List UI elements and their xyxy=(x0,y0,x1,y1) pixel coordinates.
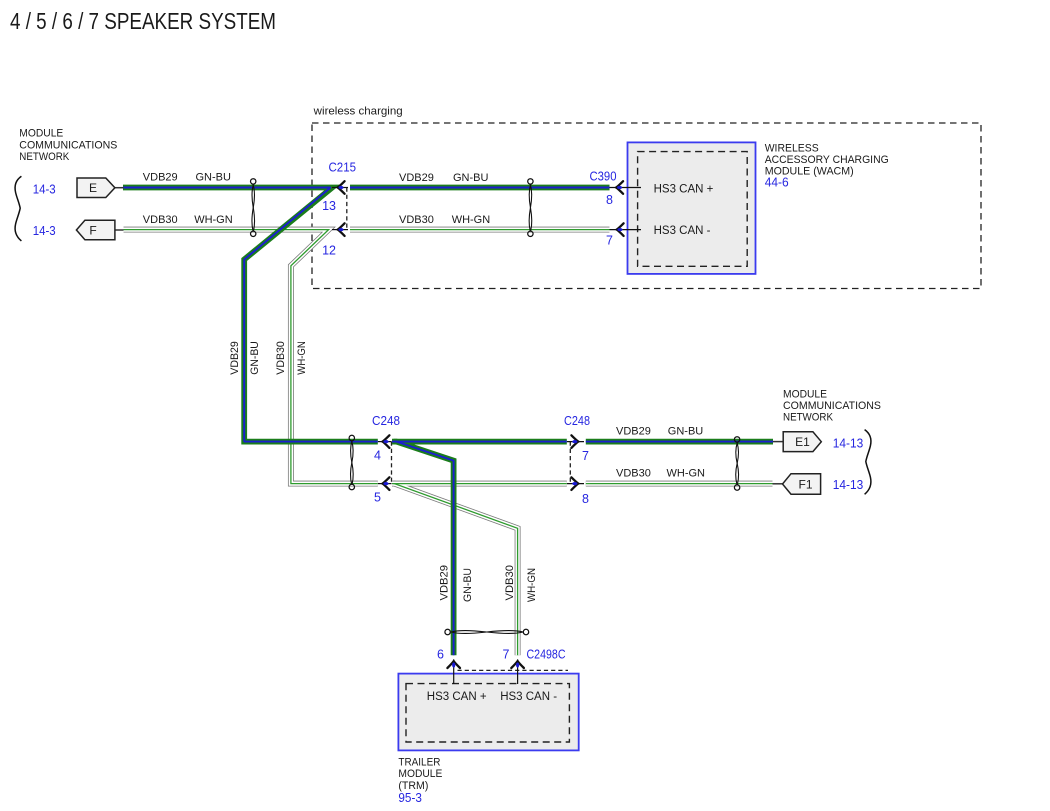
svg-text:GN-BU: GN-BU xyxy=(462,568,474,602)
svg-text:VDB30: VDB30 xyxy=(143,214,178,226)
svg-text:WH-GN: WH-GN xyxy=(452,214,491,226)
svg-text:MODULE: MODULE xyxy=(398,768,442,780)
svg-text:14-3: 14-3 xyxy=(33,183,56,197)
svg-text:14-13: 14-13 xyxy=(833,478,864,492)
svg-text:5: 5 xyxy=(374,491,381,505)
svg-text:TRAILER: TRAILER xyxy=(398,757,440,769)
svg-text:C248: C248 xyxy=(564,414,590,428)
svg-text:F1: F1 xyxy=(798,478,812,492)
svg-text:7: 7 xyxy=(582,449,589,463)
svg-text:VDB30: VDB30 xyxy=(504,565,516,601)
svg-text:4 / 5 / 6 / 7 SPEAKER SYSTEM: 4 / 5 / 6 / 7 SPEAKER SYSTEM xyxy=(10,8,276,34)
svg-text:C2498C: C2498C xyxy=(527,648,566,662)
svg-text:wireless charging: wireless charging xyxy=(313,105,403,117)
svg-text:WH-GN: WH-GN xyxy=(667,467,706,479)
svg-text:44-6: 44-6 xyxy=(765,176,789,190)
svg-text:C215: C215 xyxy=(329,161,357,175)
svg-text:VDB29: VDB29 xyxy=(399,172,434,184)
svg-text:WH-GN: WH-GN xyxy=(296,341,308,375)
svg-text:HS3 CAN +: HS3 CAN + xyxy=(427,691,487,703)
svg-text:WH-GN: WH-GN xyxy=(526,568,538,602)
svg-text:4: 4 xyxy=(374,449,381,463)
svg-text:C248: C248 xyxy=(372,414,400,428)
svg-text:GN-BU: GN-BU xyxy=(668,425,704,437)
svg-text:VDB30: VDB30 xyxy=(399,214,434,226)
svg-text:COMMUNICATIONS: COMMUNICATIONS xyxy=(19,139,117,151)
svg-text:95-3: 95-3 xyxy=(398,791,422,805)
svg-text:HS3 CAN +: HS3 CAN + xyxy=(654,183,714,195)
svg-text:14-3: 14-3 xyxy=(33,224,56,238)
svg-text:VDB30: VDB30 xyxy=(275,341,287,375)
svg-text:HS3 CAN -: HS3 CAN - xyxy=(500,691,557,703)
svg-text:F: F xyxy=(89,223,96,237)
svg-text:6: 6 xyxy=(437,648,444,662)
svg-text:VDB30: VDB30 xyxy=(616,467,651,479)
svg-text:7: 7 xyxy=(606,234,613,248)
svg-text:VDB29: VDB29 xyxy=(439,565,451,601)
svg-text:E: E xyxy=(89,181,97,195)
svg-text:E1: E1 xyxy=(795,435,810,449)
svg-text:13: 13 xyxy=(322,199,336,213)
svg-text:VDB29: VDB29 xyxy=(143,171,178,183)
svg-text:MODULE: MODULE xyxy=(783,388,827,400)
svg-text:NETWORK: NETWORK xyxy=(19,151,70,163)
svg-text:7: 7 xyxy=(503,648,510,662)
svg-text:VDB29: VDB29 xyxy=(616,425,651,437)
svg-text:8: 8 xyxy=(606,193,613,207)
svg-text:COMMUNICATIONS: COMMUNICATIONS xyxy=(783,400,881,412)
svg-text:ACCESSORY CHARGING: ACCESSORY CHARGING xyxy=(765,154,889,166)
svg-text:12: 12 xyxy=(322,244,336,258)
svg-text:WH-GN: WH-GN xyxy=(194,214,233,226)
svg-text:C390: C390 xyxy=(590,170,617,184)
svg-text:GN-BU: GN-BU xyxy=(453,172,489,184)
svg-text:NETWORK: NETWORK xyxy=(783,412,834,424)
svg-text:GN-BU: GN-BU xyxy=(249,341,261,375)
svg-text:MODULE: MODULE xyxy=(19,128,63,140)
svg-text:14-13: 14-13 xyxy=(833,436,864,450)
svg-text:VDB29: VDB29 xyxy=(229,341,241,375)
svg-text:8: 8 xyxy=(582,492,589,506)
svg-text:HS3 CAN -: HS3 CAN - xyxy=(654,225,711,237)
svg-text:GN-BU: GN-BU xyxy=(196,171,232,183)
svg-text:WIRELESS: WIRELESS xyxy=(765,143,819,155)
